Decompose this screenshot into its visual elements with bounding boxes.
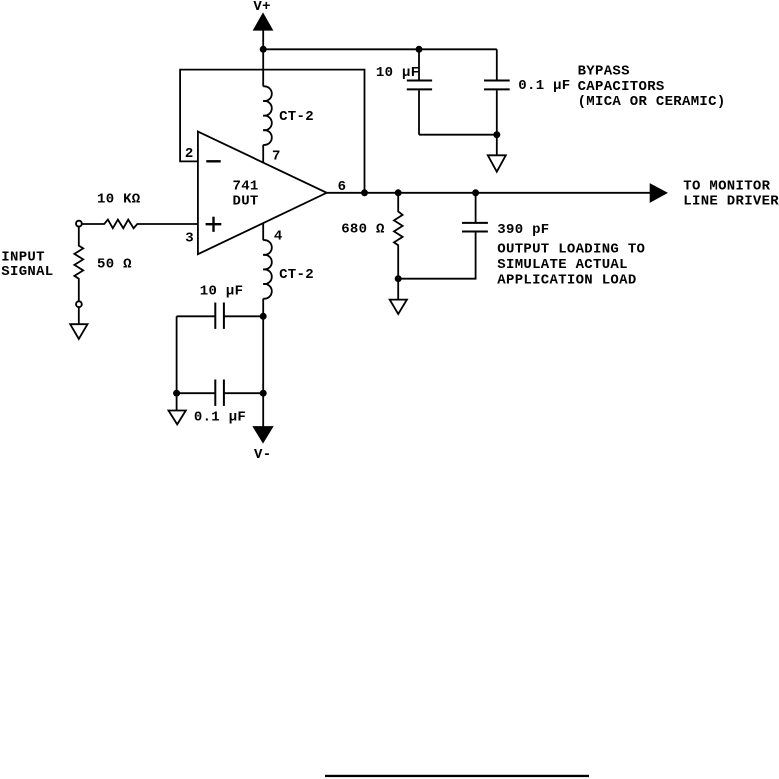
svg-text:OUTPUT LOADING TO: OUTPUT LOADING TO — [497, 241, 645, 257]
capacitor C5 0.1uF supply — [177, 380, 264, 426]
wire to input ground — [78, 307, 80, 325]
wire V+ stem down to coil — [262, 30, 264, 86]
wire pin7 stub — [262, 145, 264, 163]
wire to supply-cap ground — [176, 397, 178, 411]
svg-text:INPUT: INPUT — [1, 249, 45, 265]
svg-text:10 µF: 10 µF — [200, 284, 244, 300]
node 390 pF tap dot — [472, 189, 479, 196]
wire supply rail to bypass caps — [263, 48, 497, 50]
ground load — [390, 300, 407, 314]
output arrowhead to monitor line driver — [650, 184, 667, 202]
svg-text:SIGNAL: SIGNAL — [1, 264, 53, 280]
svg-text:7: 7 — [272, 148, 281, 164]
capacitor C3 390 pF — [398, 193, 549, 279]
svg-text:741: 741 — [233, 178, 259, 194]
input terminal circle lower — [76, 301, 82, 307]
capacitor C4 10uF supply — [177, 284, 264, 329]
label BYPASS CAPACITORS note — [578, 64, 726, 110]
input terminal circle upper — [76, 221, 82, 227]
svg-text:390 pF: 390 pF — [497, 222, 549, 238]
label INPUT SIGNAL — [1, 249, 53, 280]
node V- coil junction dot — [260, 313, 267, 320]
wire to bypass ground — [496, 135, 498, 156]
node left bottom junction dot — [173, 390, 180, 397]
label OUTPUT LOADING note — [497, 241, 645, 288]
wire feedback loop pin2 to output — [180, 70, 364, 193]
svg-text:APPLICATION LOAD: APPLICATION LOAD — [497, 272, 636, 288]
svg-text:2: 2 — [185, 146, 194, 162]
node V- rail junction dot — [260, 390, 267, 397]
svg-text:SIMULATE ACTUAL: SIMULATE ACTUAL — [497, 257, 628, 273]
svg-text:BYPASS: BYPASS — [578, 64, 630, 80]
svg-text:LINE DRIVER: LINE DRIVER — [683, 194, 779, 210]
svg-text:6: 6 — [338, 179, 347, 195]
wire left leg of supply caps — [176, 316, 178, 393]
inductor L1 CT-2 top — [263, 86, 314, 145]
ground bypass capacitors — [488, 155, 506, 171]
wire coil to V- rail — [262, 299, 264, 427]
svg-text:(MICA OR CERAMIC): (MICA OR CERAMIC) — [578, 94, 726, 110]
wire pin4 stub — [262, 223, 264, 240]
svg-text:680 Ω: 680 Ω — [341, 221, 385, 237]
svg-text:CT-2: CT-2 — [279, 109, 314, 125]
resistor R2 50 ohm — [74, 226, 132, 301]
svg-text:4: 4 — [274, 228, 283, 244]
ground input — [70, 324, 87, 339]
svg-text:10 KΩ: 10 KΩ — [97, 191, 141, 207]
bottom rule line — [325, 775, 589, 777]
node feedback-output junction dot — [361, 189, 368, 196]
wire bypass bottom rail — [419, 134, 497, 136]
svg-text:DUT: DUT — [233, 194, 259, 210]
svg-text:CAPACITORS: CAPACITORS — [578, 79, 665, 95]
svg-text:V+: V+ — [253, 0, 270, 15]
power V+ symbol — [253, 0, 272, 30]
svg-text:0.1 µF: 0.1 µF — [518, 78, 570, 94]
resistor R1 10 Kohm — [81, 191, 198, 228]
node 680 ohm tap dot — [395, 189, 402, 196]
node bypass ground junction dot — [493, 131, 500, 138]
power V- symbol — [253, 427, 273, 464]
ground supply caps — [169, 411, 186, 425]
node V+ junction dot — [260, 46, 267, 53]
inductor L2 CT-2 bottom — [263, 240, 314, 299]
svg-text:V-: V- — [254, 447, 271, 463]
svg-text:50 Ω: 50 Ω — [97, 257, 132, 273]
svg-text:10 µF: 10 µF — [376, 65, 420, 81]
svg-text:3: 3 — [185, 231, 194, 247]
svg-text:CT-2: CT-2 — [279, 267, 314, 283]
resistor R3 680 ohm — [341, 193, 402, 279]
svg-text:0.1 µF: 0.1 µF — [194, 410, 246, 426]
node bypass 10uF tap dot — [416, 46, 423, 53]
node 680-390 bottom junction dot — [395, 275, 402, 282]
wire output from op-amp — [327, 192, 651, 194]
op-amp U1 741 DUT — [198, 132, 327, 255]
wire to load ground — [397, 279, 399, 300]
capacitor C1 10uF bypass — [376, 49, 432, 134]
capacitor C2 0.1uF bypass — [484, 49, 571, 134]
svg-text:TO MONITOR: TO MONITOR — [683, 179, 770, 195]
label TO MONITOR LINE DRIVER — [683, 179, 779, 210]
